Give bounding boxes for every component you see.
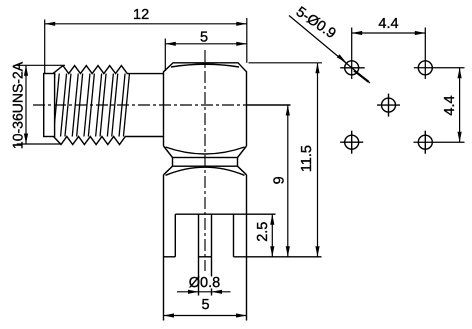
leader thick tail (354, 71, 369, 82)
vertical centerline of body (204, 50, 206, 271)
11.5 dim arrows (315, 63, 319, 74)
recess left wall (174, 214, 176, 257)
footprint hole bottom-left (340, 131, 363, 154)
thread top crest zigzag (53, 66, 164, 74)
4.4 right dim arrows (458, 68, 462, 79)
barrel top crown arc (171, 64, 239, 67)
dim 12/5 right extension (246, 18, 248, 63)
recess right wall (233, 214, 235, 257)
neck lower chamfer right (238, 166, 247, 175)
neck upper chamfer left (164, 146, 173, 158)
bottom face right segment with extension line (234, 256, 322, 258)
svg-text:5-Ø0.9: 5-Ø0.9 (293, 4, 339, 42)
insulator step line (extends right as extension line) (175, 213, 275, 215)
lower body left side (with extension to bottom dim) (163, 175, 165, 321)
barrel top extension line (249, 62, 323, 64)
footprint hole center (377, 94, 400, 117)
svg-text:4.4: 4.4 (442, 95, 458, 115)
svg-text:5: 5 (200, 30, 208, 46)
lower body right side (with extension to bottom dim) (246, 175, 248, 321)
footprint top 4.4 dim line (352, 32, 426, 34)
dim 11.5 line (317, 63, 319, 257)
svg-text:9: 9 (272, 176, 288, 184)
center pin right edge (211, 214, 213, 276)
thread dim line (25, 65, 27, 144)
lower body top crown arc (166, 167, 245, 175)
9 dim arrows (286, 105, 290, 116)
thread OD bottom extension (17, 143, 62, 145)
footprint hole top-right (414, 28, 465, 80)
2.5 dim arrows (270, 214, 274, 225)
svg-text:12: 12 (133, 7, 149, 23)
svg-text:4.4: 4.4 (378, 16, 398, 32)
thread dim arrows (24, 65, 28, 76)
dim 2.5 line (271, 214, 273, 257)
center pin right extension stub (211, 289, 213, 296)
12 dim arrows (45, 22, 56, 26)
horizontal centerline of connector axis (33, 104, 246, 106)
dim 5 top left extension (164, 39, 166, 72)
centerline solid extension to 9-dim (247, 104, 291, 106)
dia 0.8 dim line (177, 291, 231, 293)
footprint right 4.4 dim line (459, 68, 461, 142)
thread helix flank lines (49, 74, 130, 137)
svg-text:2.5: 2.5 (255, 222, 271, 242)
5 top dim arrows (165, 42, 176, 46)
bottom face across pin (199, 256, 212, 258)
footprint hole bottom-right (414, 131, 465, 154)
svg-text:5: 5 (201, 297, 209, 313)
dim 5 bottom line (164, 315, 247, 317)
svg-text:10-36UNS-2A: 10-36UNS-2A (9, 61, 25, 149)
thread bottom crest zigzag (54, 137, 164, 145)
5 bottom dim arrows (164, 313, 175, 317)
center pin left edge + extension (198, 214, 200, 295)
footprint hole top-left (340, 28, 365, 80)
barrel body outline (164, 63, 247, 146)
leader line 5-dia0.9 (289, 16, 370, 84)
svg-text:Ø0.8: Ø0.8 (189, 275, 220, 291)
dim 9 line (287, 105, 289, 257)
neck lower chamfer left (164, 166, 173, 175)
barrel bottom crown arc (166, 147, 245, 154)
bottom face left segment (164, 256, 176, 258)
neck spool (173, 158, 238, 167)
thread OD top extension (17, 64, 65, 66)
leader arrowhead at hole (337, 54, 346, 62)
4.4 top dim arrows (352, 31, 363, 35)
dim 5 top line (165, 43, 247, 45)
end cap flange (44, 74, 55, 137)
neck upper chamfer right (238, 146, 247, 158)
svg-text:11.5: 11.5 (299, 145, 315, 172)
dia 0.8 dim arrows (188, 290, 199, 294)
dim 12 left extension (44, 20, 46, 74)
dim 12 line (45, 23, 247, 25)
